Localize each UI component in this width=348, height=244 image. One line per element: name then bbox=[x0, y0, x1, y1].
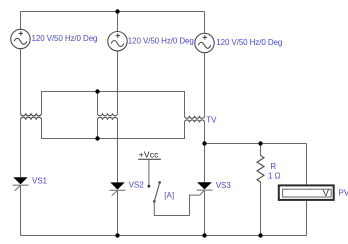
wire T2 secondary left drop bbox=[97, 120, 99, 139]
label +Vcc bbox=[138, 150, 161, 160]
transformer TV (T3) bbox=[185, 116, 205, 123]
wire V1 bottom lead to T1 bbox=[20, 49, 22, 114]
thyristor VS2 bbox=[110, 182, 126, 195]
wire R bottom lead bbox=[260, 182, 262, 236]
svg-text:+Vcc: +Vcc bbox=[139, 150, 159, 160]
svg-text:VS3: VS3 bbox=[216, 181, 232, 190]
svg-text:120 V/50 Hz/0 Deg: 120 V/50 Hz/0 Deg bbox=[128, 37, 194, 46]
resistor R zigzag bbox=[257, 156, 264, 182]
wire V2 top lead bbox=[117, 12, 119, 32]
junction bottom bus / VS2 bbox=[115, 233, 119, 237]
junction load tap / R bbox=[258, 141, 262, 145]
Vcc terminal dot bbox=[148, 185, 151, 188]
svg-text:TV: TV bbox=[206, 115, 217, 124]
junction load tap / VS3 bbox=[202, 141, 206, 145]
wire bottom bus bbox=[21, 235, 307, 237]
svg-text:VS2: VS2 bbox=[129, 180, 145, 189]
switch S1 blade bbox=[153, 181, 161, 203]
voltmeter PV bbox=[279, 185, 334, 200]
wire secondary bus bbox=[42, 120, 185, 139]
thyristor VS3 bbox=[197, 182, 213, 190]
junction bottom bus / VS3 bbox=[202, 233, 206, 237]
transformer T2 bbox=[98, 113, 118, 120]
wire voltmeter bottom lead bbox=[306, 201, 308, 236]
svg-text:V: V bbox=[323, 188, 330, 199]
wire top bus bbox=[21, 11, 205, 13]
AC source V3 bbox=[195, 33, 214, 52]
wire Vcc stem bbox=[148, 160, 150, 185]
svg-text:R: R bbox=[270, 162, 276, 171]
wire T3 secondary to VS3 anode bbox=[204, 122, 206, 182]
wire V1 top lead bbox=[20, 12, 22, 30]
junction bottom bus / R bbox=[258, 233, 262, 237]
junction top bus / V2 bbox=[115, 9, 119, 13]
svg-text:120 V/50 Hz/0 Deg: 120 V/50 Hz/0 Deg bbox=[32, 34, 98, 43]
wire load tap bbox=[205, 143, 307, 145]
wire VS3 cathode to bottom bus bbox=[204, 190, 206, 235]
svg-text:120 V/50 Hz/0 Deg: 120 V/50 Hz/0 Deg bbox=[216, 38, 282, 47]
wire switch to VS3 gate bbox=[154, 190, 204, 215]
wire V3 bottom lead to T3 bbox=[204, 53, 206, 116]
transformer T1 bbox=[21, 113, 42, 120]
svg-text:[A]: [A] bbox=[164, 191, 174, 200]
wire T1 secondary to VS1 anode bbox=[20, 120, 22, 177]
wire VS1 cathode to bottom bus bbox=[20, 185, 22, 235]
wire R top lead bbox=[260, 144, 262, 156]
wire voltmeter top lead bbox=[306, 144, 308, 185]
wire T2 secondary to VS2 anode bbox=[117, 120, 119, 183]
svg-text:1 Ω: 1 Ω bbox=[268, 172, 281, 181]
junction primary bus / T2 bbox=[95, 89, 99, 93]
wire V2 bottom lead to T2 bbox=[117, 51, 119, 113]
AC source V2 bbox=[108, 32, 127, 51]
wire VS2 cathode to bottom bus bbox=[117, 190, 119, 235]
wire V3 top lead bbox=[204, 12, 206, 34]
svg-text:VS1: VS1 bbox=[32, 176, 48, 185]
wire T2 primary left riser bbox=[97, 92, 99, 114]
wire primary bus bbox=[42, 92, 185, 116]
junction secondary bus / T2 bbox=[95, 136, 99, 140]
svg-text:PV: PV bbox=[339, 188, 348, 197]
AC source V1 bbox=[11, 29, 30, 48]
thyristor VS1 bbox=[13, 177, 29, 191]
